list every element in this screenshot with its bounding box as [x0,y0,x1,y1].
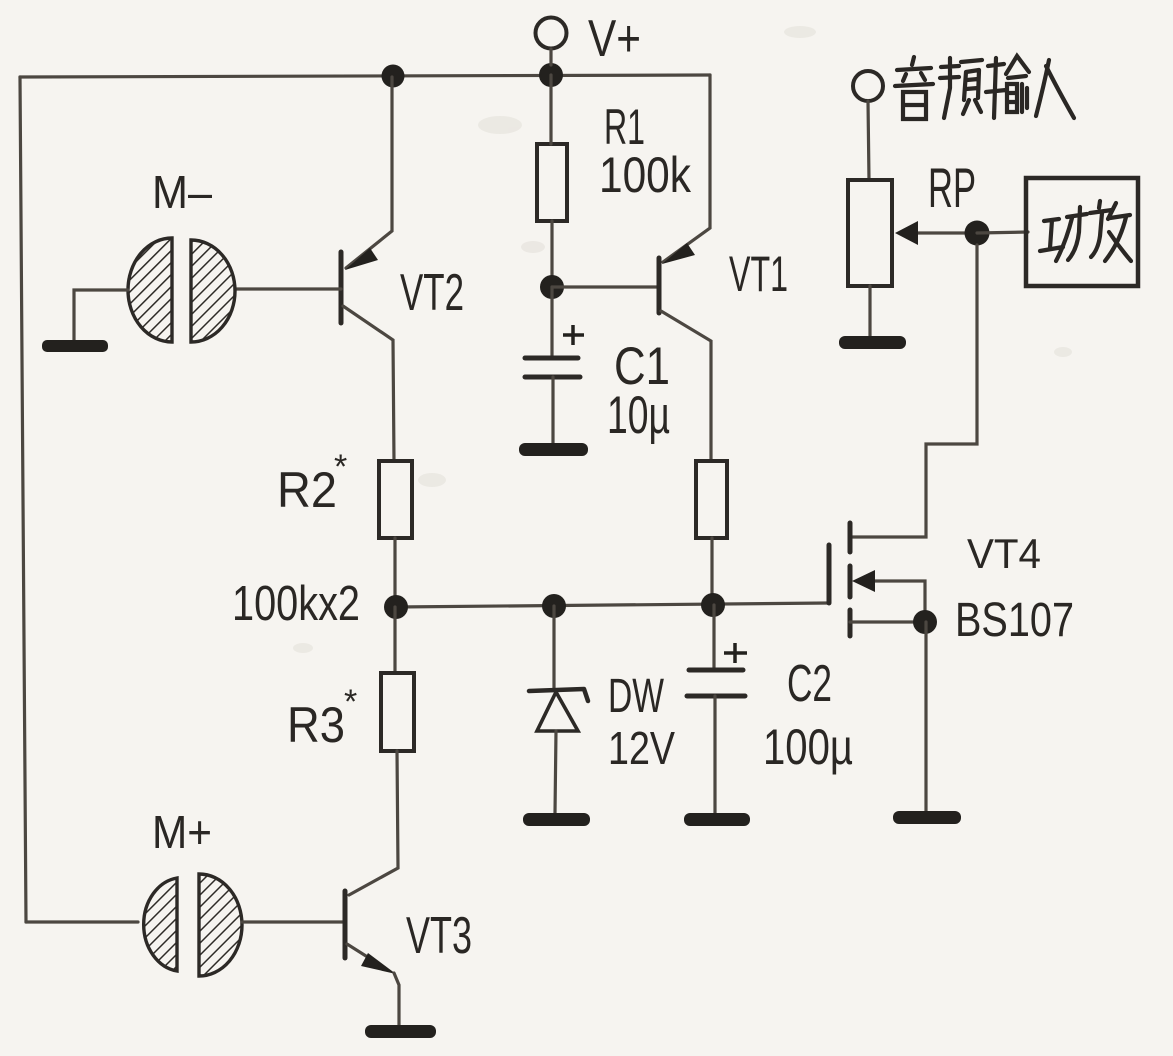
node junction R1/C1/VT1 base [540,275,564,299]
transistor VT2 base bar [339,252,344,323]
wire RP wiper [913,231,977,234]
node junction on top rail at V+ [539,63,563,87]
char gong [1040,207,1087,261]
capacitor C2 plus sign [724,643,747,663]
svg-text:M+: M+ [152,806,212,858]
MOSFET VT4 channel segment source [848,610,853,636]
char pin [940,58,982,118]
ground for VT3 [365,1025,436,1038]
wire wiper to amplifier box [977,232,1028,233]
wire resistor to bus [710,538,713,605]
char shu [986,56,1029,118]
ground for C2 [684,813,750,826]
node junction on top rail at VT2 branch [382,65,405,88]
svg-text:VT1: VT1 [729,246,788,302]
wire bus to R3 [393,607,396,673]
MOSFET VT4 channel segment drain [848,523,853,552]
svg-text:VT4: VT4 [967,530,1041,577]
transistor VT1 emitter arrow (PNP) [662,243,695,264]
svg-text:10µ: 10µ [607,386,670,445]
wire audio terminal to RP [868,101,869,180]
capacitor C2 bottom plate [687,694,745,699]
potentiometer RP body [848,180,892,286]
transistor VT2 emitter arrow (PNP) [345,248,378,270]
ground for C1 [519,443,588,456]
wire VT3 emitter to ground [394,973,399,1026]
node junction bus at C2 [701,593,725,617]
char yin [895,57,933,119]
terminal V+ circle [536,18,567,49]
wire bus to DW [552,606,555,690]
svg-text:R2: R2 [277,462,337,518]
ground for M- [42,340,108,352]
svg-text:C2: C2 [787,655,832,713]
svg-text:VT3: VT3 [406,907,472,965]
wire R3 to VT3 collector [349,751,398,895]
svg-text:M–: M– [152,166,212,218]
wire VT1 collector diagonal down to resistor [661,311,711,461]
char ru [1036,60,1074,118]
amplifier block (gong fang) box [1026,178,1138,286]
wire M- left lead [74,290,128,340]
svg-text:RP: RP [928,156,976,219]
svg-text:12V: 12V [608,722,675,774]
wire VT3 emitter diagonal [347,944,385,968]
wire top rail V+ bus [20,75,710,77]
svg-text:100kx2: 100kx2 [232,577,360,631]
wire RP to ground [868,286,871,336]
wire R2 to bus [393,538,396,606]
wire bus to C2 [712,605,715,669]
wire DW to ground [555,731,556,813]
zener diode DW triangle [537,692,578,731]
microphone M+ left half-disc [144,878,177,971]
svg-text:VT2: VT2 [400,264,464,322]
wire bottom-left horizontal to M+ [26,920,138,923]
resistor R3 [381,673,414,751]
wire wiper junction down to VT4 drain [851,245,977,537]
microphone M- left half-disc [128,238,172,342]
wire VT2 base lead from M- [235,287,341,290]
svg-text:*: * [344,683,357,721]
MOSFET VT4 gate bar [827,545,832,603]
label audio input (Chinese) [895,56,1074,119]
node junction VT4 source [913,610,937,634]
terminal audio input circle [853,71,883,101]
svg-text:DW: DW [608,670,664,723]
char fang [1090,201,1131,261]
transistor VT3 emitter arrow (NPN) [361,953,396,974]
node junction wiper [965,221,990,246]
zener diode DW cathode bar [529,689,588,701]
wire C2 to ground [713,696,716,813]
node junction bus at R2/R3 [384,595,408,619]
svg-text:BS107: BS107 [955,594,1074,647]
transistor VT1 base bar [657,258,662,313]
wire VT2 collector diagonal and drop to R2 [343,306,394,461]
MOSFET VT4 body lead with arrow [870,581,925,622]
wire VT2 emitter drop from rail [346,77,392,268]
resistor R1 [537,144,567,221]
wire node to VT1 base [552,285,659,288]
wire middle bus [396,603,829,607]
MOSFET VT4 body arrow [852,570,875,592]
capacitor C1 plus sign [563,325,584,345]
svg-text:100k: 100k [599,147,692,203]
svg-text:*: * [334,448,347,486]
wire node to C1 [550,287,553,357]
resistor R2 [379,461,412,538]
wire VT4 source to ground [924,622,927,811]
wire VT3 base lead from M+ [242,920,345,923]
wire top rail corner down to VT1 emitter [663,75,710,262]
capacitor C1 bottom plate [525,375,580,380]
label amplifier (Chinese gong fang) [1040,201,1131,261]
svg-text:R3: R3 [287,697,345,753]
wire V+ to R1 [549,75,552,144]
microphone M- right half-disc [191,240,235,342]
MOSFET VT4 channel segment body [848,566,853,597]
wire V+ stub [549,49,552,65]
svg-text:100µ: 100µ [763,719,853,775]
capacitor C2 top plate [689,668,743,673]
capacitor C1 top plate [525,356,578,361]
wire left border vertical [20,77,26,922]
wire R1 to node [550,221,553,287]
transistor VT3 base bar [343,891,348,958]
resistor under VT1 (second 100k) [696,461,727,538]
scan smudges (decorative) [293,26,1072,653]
microphone M+ right half-disc [199,874,242,976]
ground for VT4 [893,811,961,824]
svg-text:V+: V+ [588,10,641,68]
potentiometer RP wiper arrow [895,221,918,245]
node junction bus at DW [542,594,566,618]
ground for DW [523,813,590,826]
MOSFET VT4 source lead [850,620,925,623]
ground for RP [839,336,906,349]
wire C1 to ground [551,377,554,443]
